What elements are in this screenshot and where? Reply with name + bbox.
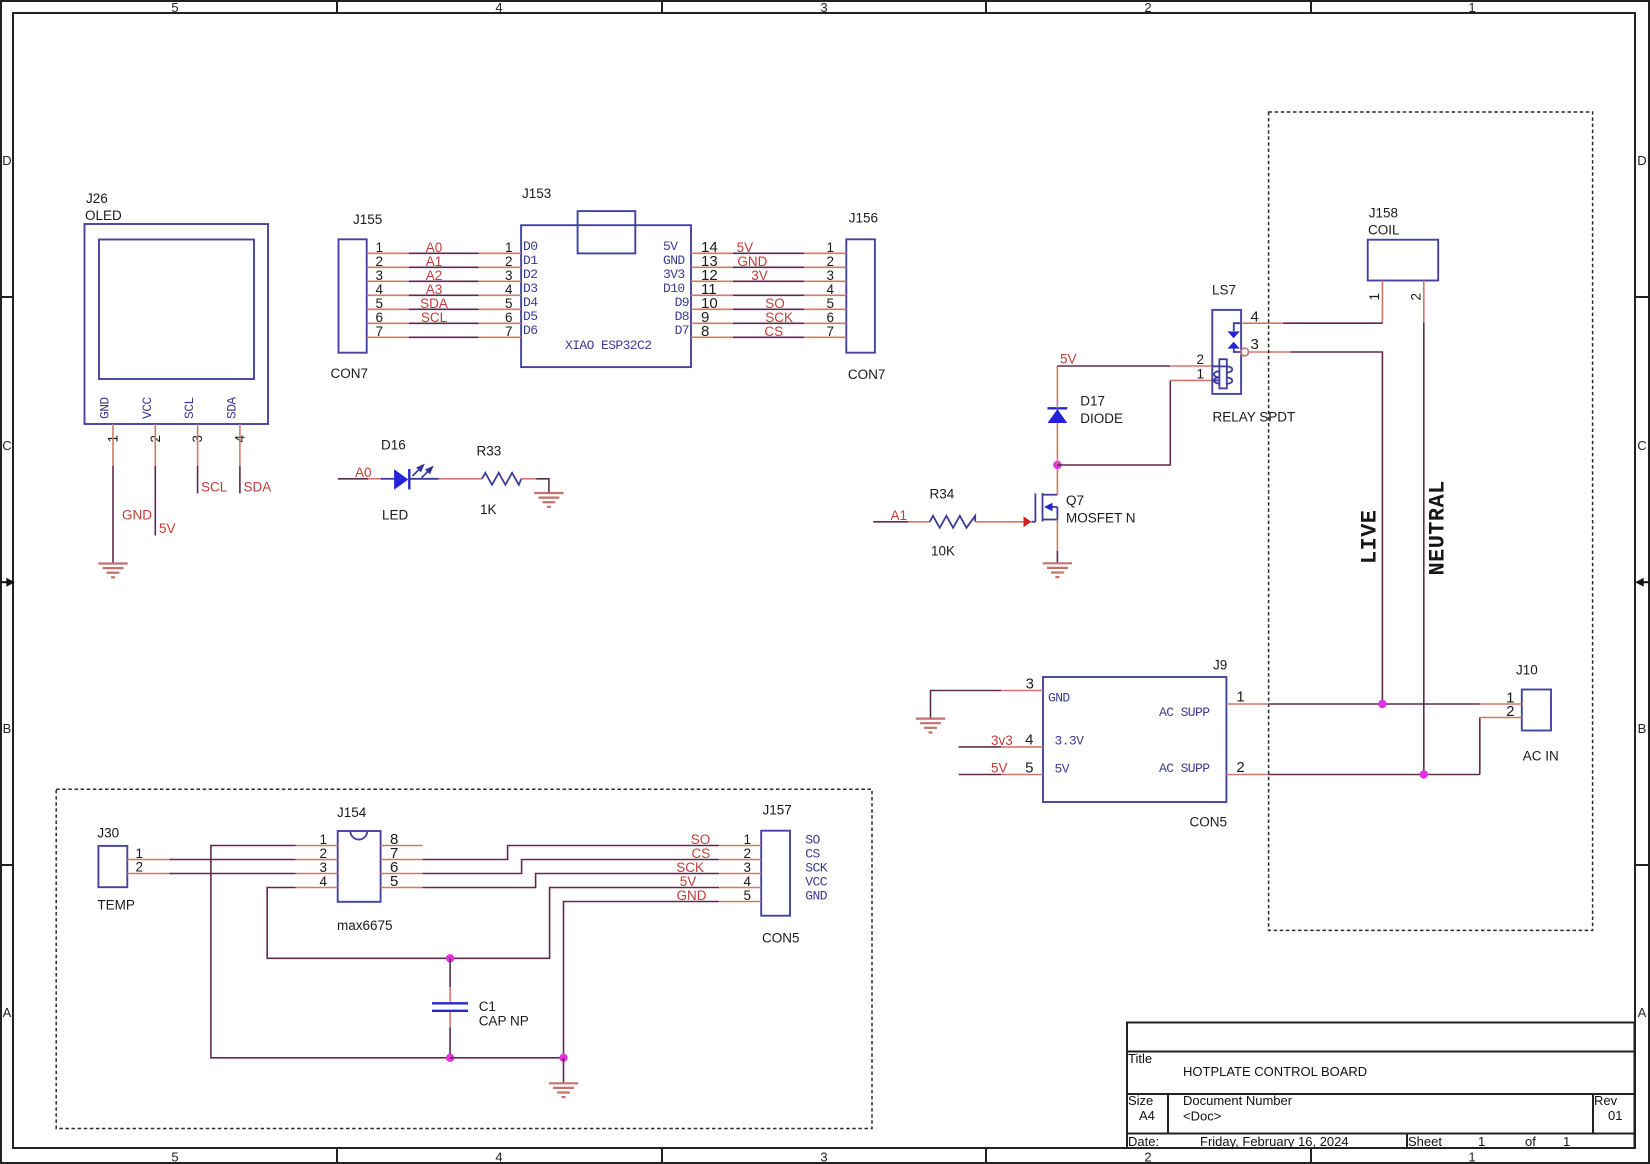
- svg-text:D2: D2: [523, 267, 537, 282]
- net label SDA: [244, 480, 272, 495]
- svg-text:SCL: SCL: [201, 480, 228, 495]
- svg-text:J26: J26: [86, 191, 108, 206]
- svg-text:OLED: OLED: [85, 208, 122, 223]
- svg-text:Title: Title: [1128, 1051, 1152, 1066]
- D17 cathode pin to 5V corner: [1056, 366, 1058, 408]
- R34 right pin to Q7 gate with arrow: [975, 516, 1031, 527]
- svg-text:CS: CS: [805, 847, 820, 862]
- wire J9 pin3 to ground: [931, 691, 1002, 719]
- svg-text:<Doc>: <Doc>: [1183, 1109, 1221, 1124]
- net label GND: [677, 888, 707, 903]
- svg-text:J155: J155: [353, 212, 382, 227]
- svg-text:5V: 5V: [1055, 762, 1070, 777]
- wire riser to J10 pin2: [1479, 718, 1481, 775]
- wire net A3 J155.4-J153.4: [409, 294, 479, 296]
- svg-text:LIVE: LIVE: [1358, 510, 1383, 564]
- svg-text:2: 2: [1196, 352, 1204, 367]
- capacitor C1 top pin: [449, 958, 451, 1002]
- wire net SO J154.7 to J157.1: [423, 846, 720, 860]
- svg-text:Friday, February 16, 2024: Friday, February 16, 2024: [1200, 1134, 1349, 1149]
- wire net SCK J153.9-J156.6: [733, 322, 804, 324]
- resistor R33: [477, 444, 522, 518]
- wire net GND J157.5 route: [564, 902, 720, 1058]
- connector J157 CON5: [719, 803, 828, 946]
- svg-text:J158: J158: [1369, 206, 1398, 221]
- svg-text:J9: J9: [1213, 658, 1227, 673]
- net label CS: [692, 846, 711, 861]
- net name NEUTRAL: [1426, 480, 1451, 575]
- svg-text:J156: J156: [849, 211, 878, 226]
- svg-text:A0: A0: [355, 465, 372, 480]
- relay LS7 pin1 stub: [1170, 379, 1219, 381]
- wire net 5V to J9 pin5: [959, 774, 1001, 776]
- svg-text:A0: A0: [426, 240, 443, 255]
- svg-text:2: 2: [1236, 759, 1244, 776]
- svg-text:D8: D8: [675, 309, 689, 324]
- svg-text:5V: 5V: [663, 239, 678, 254]
- svg-text:GND: GND: [663, 253, 685, 268]
- svg-text:D7: D7: [675, 323, 689, 338]
- svg-text:D: D: [2, 153, 11, 168]
- connector J10 AC IN: [1480, 663, 1559, 764]
- wire net 5V to relay pin2: [1057, 365, 1170, 367]
- svg-text:LS7: LS7: [1212, 283, 1236, 298]
- wire net 5V J153.14-J156.1: [733, 252, 804, 254]
- svg-text:SCK: SCK: [805, 861, 827, 876]
- svg-text:3V3: 3V3: [663, 267, 685, 282]
- svg-text:1: 1: [1236, 689, 1244, 706]
- wire J30.2 to J154.3: [169, 873, 295, 875]
- svg-text:LED: LED: [382, 508, 409, 523]
- wire net 5V from J26 pin2: [154, 466, 156, 536]
- transistor Q7 MOSFET N: [1031, 493, 1135, 526]
- net label A1: [891, 508, 908, 523]
- svg-text:CON5: CON5: [1190, 815, 1228, 830]
- svg-text:J10: J10: [1516, 663, 1538, 678]
- relay pin3 stub: [1249, 351, 1291, 353]
- wire J155.7-J153.7: [409, 336, 479, 338]
- svg-text:TEMP: TEMP: [97, 898, 135, 913]
- svg-text:4: 4: [1025, 732, 1033, 749]
- wire net A1 J155.2-J153.2: [409, 266, 479, 268]
- wire net SDA J155.5-J153.5: [409, 308, 479, 310]
- diode D17: [1048, 394, 1124, 427]
- svg-text:Size: Size: [1128, 1093, 1153, 1108]
- svg-text:of: of: [1525, 1134, 1536, 1149]
- net label 5V: [159, 521, 176, 536]
- wire net GND J153.13-J156.2: [733, 266, 804, 268]
- net label 3V: [751, 268, 768, 283]
- net label GND: [122, 508, 152, 523]
- svg-text:GND: GND: [98, 397, 113, 419]
- svg-text:10K: 10K: [931, 544, 955, 559]
- svg-text:Q7: Q7: [1066, 493, 1084, 508]
- IC J154 max6675: [296, 805, 423, 933]
- connector J30 TEMP: [97, 826, 169, 913]
- svg-text:01: 01: [1608, 1108, 1622, 1123]
- svg-text:SCL: SCL: [421, 310, 448, 325]
- svg-text:max6675: max6675: [337, 918, 393, 933]
- wire Q7 source to ground: [1056, 551, 1058, 563]
- svg-text:NEUTRAL: NEUTRAL: [1426, 480, 1451, 575]
- net label SDA: [420, 296, 448, 311]
- svg-text:CS: CS: [692, 846, 711, 861]
- ground symbol at J26: [98, 564, 127, 578]
- wire net SO J153.10-J156.5: [733, 308, 804, 310]
- wire net A1 to R34: [873, 521, 908, 523]
- Q7 drain pin wire: [1056, 465, 1058, 495]
- svg-text:COIL: COIL: [1368, 223, 1400, 238]
- svg-text:D17: D17: [1080, 394, 1105, 409]
- connector J26 OLED: [85, 191, 269, 424]
- svg-text:GND: GND: [677, 888, 707, 903]
- svg-text:5V: 5V: [680, 874, 697, 889]
- svg-text:D10: D10: [663, 281, 685, 296]
- svg-text:GND: GND: [805, 889, 827, 904]
- wire net 3v3 to J9 pin4: [959, 746, 1001, 748]
- svg-text:R33: R33: [477, 444, 502, 459]
- J26 pin 2: [148, 424, 163, 466]
- power supply module J9 CON5: [1001, 658, 1268, 830]
- relay LS7 pin2 stub: [1170, 365, 1219, 367]
- svg-text:C: C: [2, 438, 11, 453]
- connector J158 COIL: [1367, 206, 1438, 323]
- junction node drain/relay coil: [1053, 461, 1061, 469]
- net label A0: [355, 465, 372, 480]
- ground symbol at J9: [916, 719, 945, 733]
- svg-text:SCL: SCL: [182, 397, 197, 419]
- AC section dashed boundary: [1269, 112, 1593, 930]
- wire R33 to ground: [536, 479, 549, 493]
- svg-text:B: B: [3, 721, 12, 736]
- svg-text:2: 2: [135, 860, 143, 875]
- svg-text:1: 1: [1468, 1150, 1475, 1164]
- net label SO: [765, 296, 785, 311]
- svg-text:Date:: Date:: [1128, 1134, 1159, 1149]
- net name LIVE: [1358, 510, 1383, 564]
- title block: [1127, 1023, 1635, 1150]
- net label SCL: [421, 310, 448, 325]
- svg-text:D: D: [1637, 153, 1646, 168]
- svg-text:1: 1: [1563, 1134, 1570, 1149]
- net label CS: [764, 324, 783, 339]
- svg-text:CS: CS: [764, 324, 783, 339]
- wire J153.11-J156.4: [733, 294, 804, 296]
- net label SCK: [765, 310, 793, 325]
- svg-text:MOSFET N: MOSFET N: [1066, 511, 1136, 526]
- wire J158 pin1 down to relay pin4: [1381, 322, 1383, 325]
- svg-text:R34: R34: [930, 487, 955, 502]
- net label A1: [426, 254, 443, 269]
- wire net CS J154.6 to J157.2: [423, 860, 720, 874]
- wire to ground symbol: [563, 1058, 565, 1083]
- svg-text:HOTPLATE CONTROL BOARD: HOTPLATE CONTROL BOARD: [1183, 1064, 1367, 1079]
- wire net SCL from J26 pin3: [197, 466, 199, 494]
- svg-text:5: 5: [171, 0, 178, 15]
- svg-text:GND: GND: [737, 254, 767, 269]
- svg-text:A4: A4: [1139, 1108, 1155, 1123]
- net label SCK: [676, 860, 704, 875]
- module U J153 XIAO ESP32C2: [479, 186, 734, 367]
- wire J30.1 to J154.2: [169, 859, 295, 861]
- svg-text:SCK: SCK: [676, 860, 704, 875]
- svg-text:5V: 5V: [1060, 352, 1077, 367]
- J26 pin 3: [190, 424, 205, 466]
- svg-text:D4: D4: [523, 295, 538, 310]
- wire net A0 to LED D16: [338, 478, 368, 480]
- net label GND: [737, 254, 767, 269]
- svg-text:1K: 1K: [480, 502, 497, 517]
- svg-text:AC IN: AC IN: [1523, 749, 1559, 764]
- svg-text:1: 1: [1196, 367, 1204, 382]
- svg-text:SDA: SDA: [224, 397, 239, 419]
- svg-text:3V: 3V: [751, 268, 768, 283]
- net label 5V: [991, 761, 1008, 776]
- svg-text:5V: 5V: [159, 521, 176, 536]
- net label 5V: [1060, 352, 1077, 367]
- svg-text:5V: 5V: [991, 761, 1008, 776]
- svg-text:SDA: SDA: [420, 296, 448, 311]
- LED D16: [381, 438, 439, 523]
- svg-text:GND: GND: [1048, 691, 1070, 706]
- svg-text:D16: D16: [381, 438, 406, 453]
- svg-text:A1: A1: [891, 508, 908, 523]
- capacitor C1 bottom pin: [449, 1012, 451, 1058]
- svg-text:J157: J157: [763, 803, 792, 818]
- svg-text:GND: GND: [122, 508, 152, 523]
- svg-text:AC SUPP: AC SUPP: [1159, 705, 1210, 720]
- svg-text:2: 2: [1144, 1150, 1151, 1164]
- svg-text:3.3V: 3.3V: [1055, 734, 1085, 749]
- svg-text:2: 2: [1144, 0, 1151, 15]
- svg-text:CON5: CON5: [762, 931, 800, 946]
- wire net LIVE relay pin3 to J158 area: [1290, 352, 1382, 704]
- svg-text:3: 3: [820, 1150, 827, 1164]
- net label SO: [691, 832, 711, 847]
- R33 right pin: [521, 478, 536, 480]
- svg-text:J154: J154: [337, 805, 367, 820]
- svg-text:4: 4: [495, 0, 502, 15]
- net label SCL: [201, 480, 228, 495]
- ground symbol at C1: [549, 1083, 578, 1097]
- svg-text:3: 3: [1251, 336, 1259, 353]
- svg-text:A: A: [3, 1005, 12, 1020]
- net label A0: [426, 240, 443, 255]
- svg-text:CON7: CON7: [331, 366, 369, 381]
- wire net GND from J26 pin1 to ground: [112, 466, 114, 564]
- svg-text:D0: D0: [523, 239, 537, 254]
- svg-text:Document Number: Document Number: [1183, 1093, 1293, 1108]
- svg-text:D1: D1: [523, 253, 538, 268]
- svg-text:SO: SO: [805, 833, 820, 848]
- sensor section dashed boundary: [56, 789, 872, 1128]
- svg-text:RELAY SPDT: RELAY SPDT: [1213, 410, 1296, 425]
- wire net 3V J153.12-J156.3: [733, 280, 804, 282]
- svg-text:XIAO ESP32C2: XIAO ESP32C2: [565, 338, 651, 353]
- connector J155 CON7: [331, 212, 409, 381]
- wire net GND J154.1 left route: [211, 846, 450, 1058]
- ground symbol at Q7: [1043, 563, 1072, 577]
- relay pin4 stub: [1241, 322, 1283, 324]
- svg-text:1: 1: [1478, 1134, 1485, 1149]
- svg-text:A2: A2: [426, 268, 443, 283]
- junction node LIVE: [1378, 700, 1386, 708]
- D16 anode pin: [368, 478, 382, 480]
- svg-text:3: 3: [820, 0, 827, 15]
- svg-text:SO: SO: [765, 296, 785, 311]
- junction node NEUTRAL: [1420, 770, 1428, 778]
- wire relay pin4 to J158 pin1: [1283, 322, 1382, 324]
- svg-text:5V: 5V: [737, 240, 754, 255]
- net label A3: [426, 282, 443, 297]
- net label 5V: [737, 240, 754, 255]
- svg-text:D6: D6: [523, 323, 537, 338]
- ground symbol at R33: [534, 493, 563, 507]
- svg-text:VCC: VCC: [140, 397, 155, 419]
- svg-text:J153: J153: [522, 186, 551, 201]
- svg-text:1: 1: [1468, 0, 1475, 15]
- svg-text:DIODE: DIODE: [1080, 411, 1123, 426]
- wire net SDA from J26 pin4: [239, 466, 241, 494]
- wire net GND bottom row: [450, 1057, 563, 1059]
- connector J156 CON7: [804, 211, 885, 383]
- net label A2: [426, 268, 443, 283]
- net label 3v3: [991, 733, 1013, 748]
- svg-text:Sheet: Sheet: [1408, 1134, 1442, 1149]
- svg-text:CAP NP: CAP NP: [479, 1014, 529, 1029]
- svg-text:D5: D5: [523, 309, 537, 324]
- svg-text:A1: A1: [426, 254, 443, 269]
- R34 left pin: [908, 521, 930, 523]
- svg-text:C1: C1: [479, 999, 496, 1014]
- resistor R34: [930, 487, 976, 559]
- svg-text:3v3: 3v3: [991, 733, 1013, 748]
- wire net LIVE J9 pin1 to J10 pin1: [1268, 703, 1479, 705]
- svg-text:1: 1: [1367, 293, 1382, 301]
- junction node GND/ground: [559, 1054, 567, 1062]
- wire net NEUTRAL J9 pin2 to J10 riser: [1268, 774, 1479, 776]
- J26 pin 1: [106, 424, 121, 466]
- wire net A2 J155.3-J153.3: [409, 280, 479, 282]
- svg-text:Rev: Rev: [1594, 1093, 1618, 1108]
- capacitor C1: [432, 999, 529, 1029]
- wire net SCK J154.5 to J157.3: [423, 874, 720, 888]
- svg-text:B: B: [1638, 721, 1647, 736]
- relay LS7 RELAY SPDT: [1196, 283, 1295, 425]
- svg-text:D9: D9: [675, 295, 689, 310]
- svg-text:SDA: SDA: [244, 480, 272, 495]
- D16 cathode pin / R33 pin wire: [439, 478, 482, 480]
- wire net 5V row to J157.4: [564, 887, 719, 889]
- wire net NEUTRAL J158 pin2 down: [1423, 323, 1425, 775]
- svg-text:A: A: [1638, 1005, 1647, 1020]
- svg-text:CON7: CON7: [848, 367, 886, 382]
- wire net 5V J154.4 dip route: [267, 888, 564, 959]
- svg-text:SO: SO: [691, 832, 711, 847]
- svg-text:VCC: VCC: [805, 875, 827, 890]
- junction node C1 top: [446, 954, 454, 962]
- svg-text:2: 2: [1409, 293, 1424, 301]
- svg-text:AC SUPP: AC SUPP: [1159, 761, 1210, 776]
- junction node C1 bottom: [446, 1054, 454, 1062]
- Q7 source pin: [1056, 520, 1058, 552]
- wire net SCL J155.6-J153.6: [409, 322, 479, 324]
- net label 5V: [680, 874, 697, 889]
- J26 pin 4: [232, 424, 247, 466]
- wire net A0 J155.1-J153.1: [409, 252, 479, 254]
- wire net CS J153.8-J156.7: [733, 336, 804, 338]
- svg-text:J30: J30: [97, 826, 119, 841]
- diode D17 anode pin: [1056, 423, 1058, 465]
- svg-text:A3: A3: [426, 282, 443, 297]
- svg-text:4: 4: [495, 1150, 502, 1164]
- svg-text:5: 5: [171, 1150, 178, 1164]
- svg-text:C: C: [1637, 438, 1646, 453]
- svg-text:D3: D3: [523, 281, 537, 296]
- svg-text:SCK: SCK: [765, 310, 793, 325]
- wire junction to relay pin1: [1057, 380, 1170, 465]
